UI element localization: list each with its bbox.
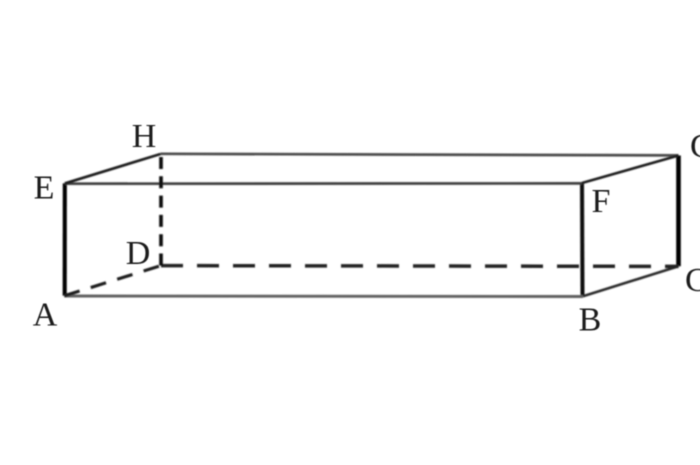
svg-text:F: F — [592, 183, 611, 220]
svg-text:A: A — [33, 297, 58, 334]
svg-text:G: G — [690, 128, 700, 165]
svg-text:C: C — [685, 262, 700, 299]
svg-text:E: E — [34, 170, 55, 207]
svg-text:H: H — [132, 118, 157, 155]
svg-text:B: B — [579, 301, 602, 338]
svg-text:D: D — [126, 235, 151, 272]
